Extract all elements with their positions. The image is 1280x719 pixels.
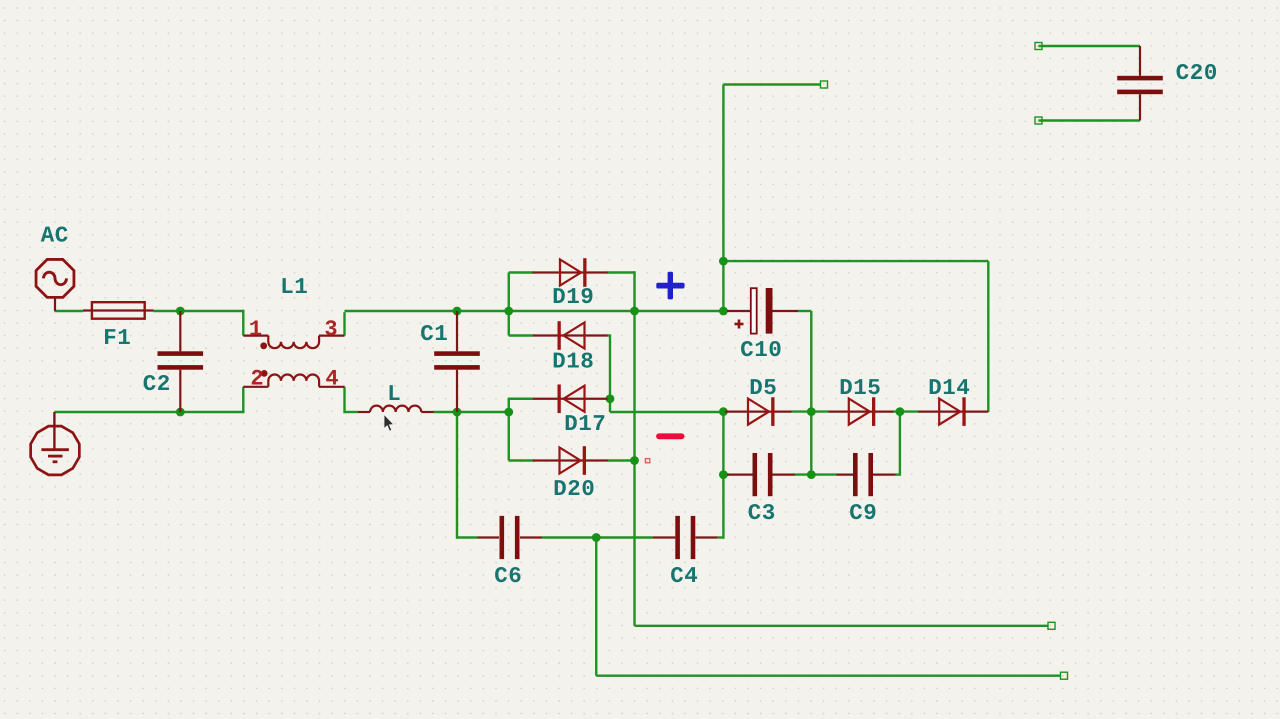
capacitor C1 pins	[456, 311, 458, 412]
capacitor C3 pins	[727, 474, 795, 476]
wire L1 pin3 leg	[343, 312, 345, 335]
mouse cursor	[384, 414, 394, 432]
wire to D19 anode	[509, 271, 534, 273]
capacitor C6 pins	[478, 536, 543, 538]
wire bottom rail mid	[457, 411, 509, 413]
capacitor C20 pins	[1139, 46, 1141, 121]
label C4	[671, 567, 697, 582]
capacitor C2 pins	[179, 311, 181, 412]
label D19	[554, 288, 593, 303]
diode D17 pin line	[533, 398, 608, 400]
inductor L coil	[370, 406, 421, 412]
wire end marker	[1061, 672, 1068, 679]
label C2	[144, 375, 169, 390]
diode D20	[560, 446, 587, 475]
wire C4 up to C3 node	[718, 412, 724, 539]
label L1	[283, 278, 307, 293]
wire D20 anode stub	[509, 459, 534, 461]
wire L1 pin1 leg	[242, 310, 244, 336]
transformer L1 pin2	[243, 386, 268, 388]
junction node 3	[453, 307, 462, 316]
junction node 12	[719, 307, 728, 316]
wire bottom rail left	[54, 411, 243, 413]
wire D19 cathode to bus	[607, 271, 635, 273]
wire C1 drop to C6	[457, 412, 478, 539]
pin number 3	[325, 320, 336, 335]
label D18	[554, 352, 593, 367]
junction node 9	[630, 456, 639, 465]
junction node 7	[630, 307, 639, 316]
plus mark	[656, 272, 684, 300]
transformer L1 pin1	[243, 335, 268, 337]
wire D18 to D17 node	[607, 334, 611, 398]
diode D15	[849, 397, 876, 426]
wire end marker	[1048, 622, 1055, 629]
wire diode left bus upper	[508, 273, 510, 336]
minus mark	[656, 433, 684, 439]
diode D18 pin line	[533, 334, 608, 336]
wire AC to fuse	[54, 310, 83, 312]
ground symbol bars	[41, 450, 69, 462]
label C20	[1177, 64, 1216, 79]
junction node 16	[719, 470, 728, 479]
wire C6-C4 node drop	[595, 538, 597, 676]
junction node 8	[606, 394, 615, 403]
wire end marker	[1035, 117, 1042, 124]
wire fuse to node A	[154, 310, 244, 312]
label F1	[105, 329, 130, 344]
transformer L1 secondary	[268, 375, 319, 387]
diode D15 pin line	[829, 411, 894, 413]
junction node 15	[896, 407, 905, 416]
junction node 10	[592, 533, 601, 542]
wire C9 right corner	[896, 412, 900, 476]
capacitor C10 pins	[727, 310, 798, 312]
junction node 5	[504, 307, 513, 316]
junction node 6	[504, 408, 513, 417]
pin number 2	[252, 370, 263, 385]
wire C3 to C9	[795, 473, 837, 475]
capacitor C4	[675, 516, 695, 559]
wire C10 to rail drop	[798, 311, 811, 475]
wire end marker	[1035, 43, 1042, 50]
wire top right rail	[723, 260, 988, 262]
junction node 2	[176, 408, 185, 417]
label C6	[495, 567, 520, 582]
diode D20 pin line	[533, 459, 608, 461]
transformer L1 secondary dot	[261, 370, 268, 377]
diode D19 pin line	[533, 271, 608, 273]
label D5	[751, 379, 776, 394]
wire bottom out upper	[635, 625, 1049, 627]
wire to D18 cathode	[509, 334, 534, 336]
junction node 17	[807, 470, 816, 479]
wire diode left bus lower	[508, 398, 510, 461]
transformer L1 primary dot	[260, 342, 267, 349]
wire center vertical bus	[633, 271, 635, 626]
wire L1 pin2 leg	[242, 387, 244, 413]
junction node 11	[719, 257, 728, 266]
pin number 1	[250, 321, 261, 335]
junction node 4	[453, 408, 462, 417]
wire D17 node to rail	[610, 399, 723, 412]
diode D19	[560, 258, 587, 287]
label C1	[421, 325, 447, 340]
wire bottom out lower	[596, 675, 1061, 677]
wire D15 to D14	[894, 410, 919, 412]
label L	[390, 385, 400, 400]
diode D14	[939, 397, 966, 426]
junction node 13	[719, 407, 728, 416]
label C3	[749, 504, 775, 519]
capacitor C20	[1117, 76, 1163, 94]
pin number 4	[326, 370, 338, 384]
wire top vertical	[722, 85, 724, 262]
wire C20 top	[1039, 45, 1141, 47]
label C10	[741, 341, 780, 356]
voltage source V1 sine	[44, 272, 67, 285]
label D20	[555, 480, 594, 495]
wire C10 feed	[722, 261, 724, 312]
wire D17 anode stub	[509, 398, 534, 400]
label D14	[930, 379, 969, 394]
capacitor C4 pins	[653, 536, 718, 538]
diode D5 pin line	[725, 411, 792, 413]
diode D18	[558, 321, 585, 350]
wire L to C1	[434, 411, 458, 413]
wire D20 cathode to bus	[607, 459, 635, 461]
label D17	[566, 415, 605, 430]
wire C6 to C4	[542, 536, 653, 538]
voltage source V1 pin	[54, 298, 56, 311]
inductor L pins	[358, 411, 434, 413]
voltage source V1 AC circle	[36, 259, 74, 297]
wire end marker	[821, 81, 828, 88]
label D15	[841, 379, 880, 394]
wire C3 left stub	[723, 473, 729, 475]
ground symbol circle	[31, 426, 80, 475]
ground symbol stem	[53, 412, 55, 450]
fuse F1 line	[83, 309, 154, 311]
diode D5	[748, 397, 775, 426]
capacitor C9 pins	[837, 474, 896, 476]
junction node 14	[807, 407, 816, 416]
wire top stub	[723, 83, 820, 85]
diode D14 pin line	[918, 411, 988, 413]
capacitor C6	[500, 516, 520, 559]
wire C20 bottom	[1039, 119, 1141, 121]
capacitor C2	[158, 351, 204, 369]
small unconnected marker	[645, 459, 649, 463]
wire L1 pin4 leg	[343, 387, 345, 413]
capacitor C10 plates	[751, 288, 773, 334]
transformer L1 pin4	[319, 386, 345, 388]
capacitor C10 polarity	[735, 320, 744, 329]
transformer L1 pin3	[319, 335, 345, 337]
wire top rail	[345, 310, 724, 312]
junction node 1	[176, 307, 185, 316]
label AC	[41, 226, 68, 241]
label C9	[850, 504, 875, 519]
capacitor C1	[434, 351, 480, 369]
fuse F1 body	[92, 302, 145, 319]
transformer L1 primary	[268, 336, 319, 349]
wire right vertical	[987, 261, 989, 412]
diode D17	[558, 384, 585, 413]
wire D5 to D15	[792, 410, 829, 412]
wire L1 to L	[345, 411, 358, 413]
capacitor C3	[753, 453, 773, 496]
capacitor C9	[853, 453, 873, 496]
